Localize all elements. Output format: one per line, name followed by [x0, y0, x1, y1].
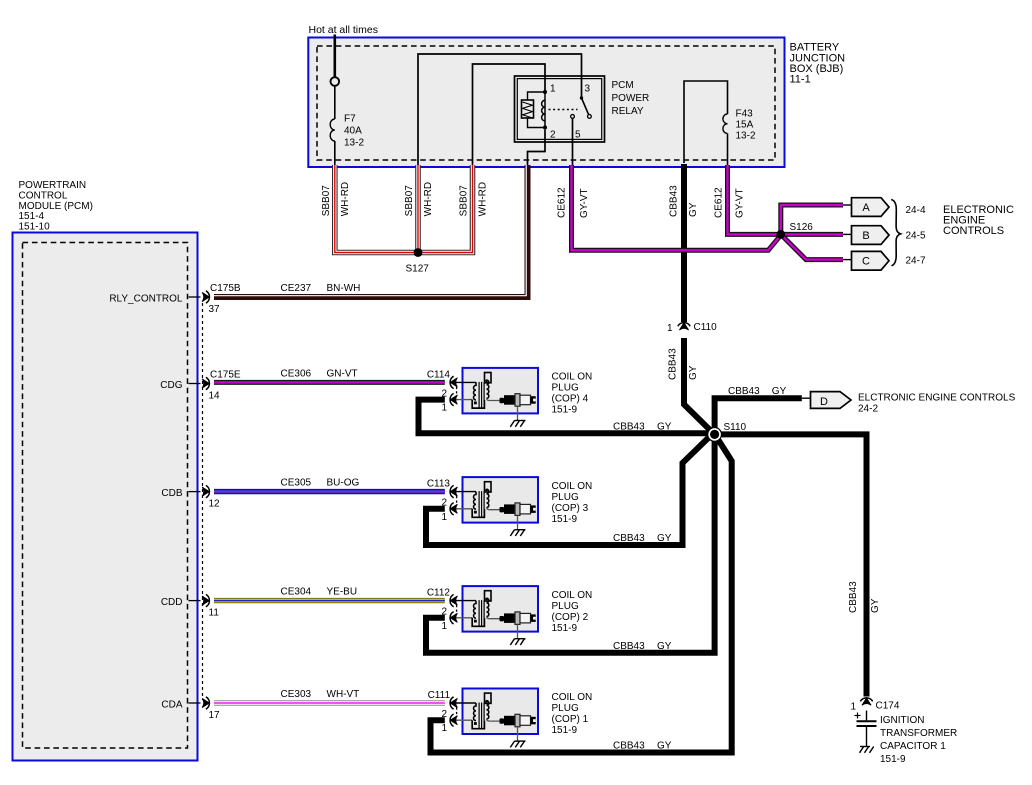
svg-text:BN-WH: BN-WH — [327, 283, 361, 294]
svg-text:WH-RD: WH-RD — [340, 182, 351, 216]
svg-text:WH-VT: WH-VT — [327, 689, 360, 700]
coil on plug (COP) 3 — [441, 477, 538, 536]
wire CBB43 GY ground branch row 3 — [426, 434, 715, 652]
svg-text:14: 14 — [209, 391, 221, 402]
svg-text:PLUG: PLUG — [552, 383, 579, 394]
svg-text:24-2: 24-2 — [858, 403, 878, 414]
wire SBB07 WH-RD #3 — [418, 165, 473, 253]
svg-text:SBB07: SBB07 — [321, 185, 332, 217]
svg-text:13-2: 13-2 — [344, 138, 364, 149]
svg-text:151-9: 151-9 — [552, 405, 578, 416]
powertrain control module (PCM) outline — [13, 233, 198, 761]
svg-text:CE237: CE237 — [281, 283, 312, 294]
svg-text:CE304: CE304 — [281, 587, 312, 598]
svg-text:SBB07: SBB07 — [459, 185, 470, 217]
svg-text:C112: C112 — [427, 588, 451, 599]
wire S126 to C — [781, 234, 843, 259]
svg-text:COIL ON: COIL ON — [552, 590, 593, 601]
svg-text:A: A — [862, 202, 870, 214]
svg-text:WH-RD: WH-RD — [478, 182, 489, 216]
wire CE237 BN-WH rly control — [214, 165, 528, 297]
svg-text:12: 12 — [209, 499, 221, 510]
svg-text:C175B: C175B — [210, 283, 241, 294]
fuse F43 — [723, 114, 728, 134]
svg-text:17: 17 — [209, 710, 221, 721]
svg-text:PLUG: PLUG — [552, 492, 579, 503]
svg-text:CE305: CE305 — [281, 478, 312, 489]
svg-text:1: 1 — [850, 702, 856, 713]
svg-text:CONTROLS: CONTROLS — [943, 225, 1004, 237]
svg-text:GY: GY — [657, 533, 672, 544]
svg-text:151-9: 151-9 — [552, 725, 578, 736]
svg-text:CBB43: CBB43 — [668, 348, 679, 380]
connector circle on hot feed — [331, 77, 340, 86]
PCM connector dashed line — [202, 303, 204, 700]
inline connector C110 — [679, 323, 688, 330]
svg-text:BU-OG: BU-OG — [327, 478, 360, 489]
svg-text:24-5: 24-5 — [906, 231, 926, 242]
svg-text:RELAY: RELAY — [612, 106, 644, 117]
connector A — [852, 198, 890, 217]
inline connector C174 — [862, 698, 871, 705]
svg-text:CBB43: CBB43 — [613, 641, 645, 652]
battery junction box (BJB) outline — [308, 38, 784, 168]
svg-text:CDA: CDA — [161, 699, 182, 710]
svg-text:S110: S110 — [724, 422, 747, 433]
svg-text:15A: 15A — [736, 120, 754, 131]
svg-text:(COP) 2: (COP) 2 — [552, 612, 589, 623]
wire CE305 BU-OG — [214, 489, 445, 494]
PCM pin CDA — [189, 702, 201, 704]
svg-text:GN-VT: GN-VT — [327, 368, 358, 379]
svg-text:40A: 40A — [344, 126, 362, 137]
svg-text:C111: C111 — [428, 690, 451, 701]
svg-text:(COP) 4: (COP) 4 — [552, 394, 589, 405]
PCM pin RLY_CONTROL — [189, 296, 201, 298]
svg-text:CBB43: CBB43 — [613, 533, 645, 544]
relay coil — [544, 92, 546, 128]
relay pin 3 and switch arm — [580, 96, 583, 99]
svg-text:1: 1 — [667, 323, 673, 334]
svg-text:3: 3 — [585, 84, 591, 95]
relay pin 2 — [543, 125, 547, 129]
wire: F7 to BJB bottom — [334, 141, 336, 166]
svg-text:GY: GY — [657, 741, 672, 752]
wire SBB07 WH-RD #1 — [335, 165, 418, 253]
svg-text:F43: F43 — [736, 109, 754, 120]
wire: relay pin 5 to BJB bottom — [572, 118, 574, 166]
svg-text:CBB43: CBB43 — [728, 386, 760, 397]
svg-text:CBB43: CBB43 — [669, 185, 680, 217]
svg-text:11: 11 — [209, 608, 220, 619]
PCM pin CDD — [189, 600, 201, 602]
svg-text:151-9: 151-9 — [880, 754, 906, 765]
svg-text:COIL ON: COIL ON — [552, 481, 593, 492]
svg-text:GY: GY — [688, 202, 699, 217]
connector C111 — [450, 698, 457, 707]
connector C — [852, 251, 890, 270]
svg-text:CAPACITOR 1: CAPACITOR 1 — [880, 741, 946, 752]
fuse F7 — [330, 119, 335, 141]
svg-text:GY: GY — [657, 422, 672, 433]
coil on plug (COP) 2 — [441, 586, 538, 645]
svg-text:37: 37 — [209, 304, 221, 315]
svg-text:24-7: 24-7 — [906, 256, 926, 267]
wire CE306 GN-VT — [214, 380, 445, 385]
svg-text:2: 2 — [550, 130, 556, 141]
svg-text:CBB43: CBB43 — [613, 741, 645, 752]
svg-text:TRANSFORMER: TRANSFORMER — [880, 728, 957, 739]
svg-text:1: 1 — [550, 84, 556, 95]
svg-text:PLUG: PLUG — [552, 601, 579, 612]
wire CBB43 GY ground branch row 1 — [419, 400, 715, 434]
svg-text:Hot at all times: Hot at all times — [309, 24, 378, 36]
PCM pin CDB — [189, 491, 201, 493]
svg-text:GY: GY — [688, 365, 699, 380]
wire CE304 YE-BU — [214, 598, 445, 603]
svg-text:GY: GY — [870, 598, 881, 613]
relay pin 1 — [543, 90, 547, 94]
svg-text:COIL ON: COIL ON — [552, 372, 593, 383]
svg-text:ELCTRONIC ENGINE CONTROLS: ELCTRONIC ENGINE CONTROLS — [858, 392, 1016, 403]
wire: relay pin 2 to BJB bottom — [528, 130, 546, 166]
svg-text:5: 5 — [575, 130, 581, 141]
svg-text:CBB43: CBB43 — [613, 422, 645, 433]
connector C114 — [450, 378, 457, 387]
svg-text:POWER: POWER — [612, 93, 650, 104]
wire CBB43 GY main from BJB — [681, 164, 687, 322]
svg-text:PCM: PCM — [612, 80, 634, 91]
wire CE303 WH-VT — [214, 700, 445, 705]
ignition transformer capacitor 1 — [866, 711, 868, 721]
svg-text:C174: C174 — [876, 701, 900, 712]
wire S126 to B — [781, 232, 843, 237]
wire CE612 GY-VT from F43 to S126 — [728, 165, 778, 234]
svg-text:COIL ON: COIL ON — [552, 692, 593, 703]
svg-text:CDB: CDB — [161, 488, 182, 499]
svg-text:SBB07: SBB07 — [404, 185, 415, 217]
wire: F43 to BJB bottom — [727, 134, 729, 167]
svg-text:PLUG: PLUG — [552, 703, 579, 714]
svg-text:11-1: 11-1 — [790, 74, 811, 86]
svg-text:WH-RD: WH-RD — [423, 182, 434, 216]
wire CBB43 GY ground branch row 2 — [426, 434, 713, 545]
splice S110 — [708, 428, 722, 442]
svg-text:F7: F7 — [344, 114, 356, 125]
relay coil resistor — [522, 100, 534, 118]
wire S126 to A — [781, 205, 843, 234]
svg-text:C175E: C175E — [210, 370, 241, 381]
svg-text:GY-VT: GY-VT — [734, 188, 745, 218]
svg-text:RLY_CONTROL: RLY_CONTROL — [109, 293, 183, 304]
svg-text:S126: S126 — [790, 222, 814, 233]
wire CE612 GY-VT from relay pin 5 — [572, 165, 781, 250]
svg-text:D: D — [820, 396, 828, 408]
svg-text:C: C — [862, 256, 870, 268]
connector C113 — [450, 487, 457, 496]
brace — [891, 200, 900, 266]
wire: relay pin 1 feed — [473, 64, 546, 166]
svg-text:C113: C113 — [427, 479, 451, 490]
connector C112 — [450, 596, 457, 605]
coil on plug (COP) 4 — [441, 368, 538, 427]
svg-text:CBB43: CBB43 — [848, 581, 859, 613]
svg-text:151-9: 151-9 — [552, 623, 578, 634]
relay U-box PCM POWER RELAY — [515, 76, 605, 142]
svg-text:POWERTRAIN: POWERTRAIN — [19, 180, 87, 191]
connector D — [811, 392, 852, 409]
wire: F43 branch inside BJB — [684, 81, 728, 163]
wire CBB43 GY ground branch row 4 — [431, 437, 732, 753]
svg-text:B: B — [862, 230, 869, 242]
svg-text:151-4: 151-4 — [19, 211, 45, 222]
wire: hot feed into BJB — [333, 35, 336, 78]
PCM pin CDG — [189, 383, 201, 385]
svg-text:GY: GY — [657, 641, 672, 652]
svg-text:(COP) 1: (COP) 1 — [552, 714, 589, 725]
wire CBB43 GY to connector D — [715, 398, 802, 434]
relay contact dashed link — [549, 109, 578, 111]
splice S126 — [776, 230, 785, 239]
svg-text:151-10: 151-10 — [19, 222, 51, 233]
wire: circle to fuse F7 — [334, 86, 336, 119]
svg-text:13-2: 13-2 — [736, 131, 756, 142]
svg-text:CE303: CE303 — [281, 689, 312, 700]
svg-text:24-4: 24-4 — [906, 205, 926, 216]
coil on plug (COP) 1 — [441, 689, 538, 748]
svg-text:GY-VT: GY-VT — [579, 188, 590, 218]
svg-text:CDG: CDG — [160, 380, 182, 391]
relay pin 5 — [571, 115, 575, 119]
wire SBB07 WH-RD #2 — [415, 165, 421, 253]
splice S127 — [414, 248, 423, 257]
svg-text:151-9: 151-9 — [552, 514, 578, 525]
svg-text:CE612: CE612 — [714, 187, 725, 218]
svg-text:CE612: CE612 — [557, 187, 568, 218]
svg-text:YE-BU: YE-BU — [327, 587, 358, 598]
wire: relay pin 3 feed — [418, 54, 582, 166]
connector B — [852, 226, 890, 245]
svg-text:(COP) 3: (COP) 3 — [552, 503, 589, 514]
svg-text:MODULE (PCM): MODULE (PCM) — [19, 201, 93, 212]
svg-text:GY: GY — [772, 386, 787, 397]
wire CBB43 GY right branch to C174 — [715, 434, 867, 696]
svg-text:IGNITION: IGNITION — [880, 715, 924, 726]
ground for capacitor — [860, 746, 870, 748]
svg-text:CONTROL: CONTROL — [19, 190, 68, 201]
svg-text:CDD: CDD — [161, 597, 183, 608]
svg-text:C114: C114 — [427, 369, 451, 380]
svg-text:CE306: CE306 — [281, 368, 312, 379]
svg-text:C110: C110 — [694, 322, 718, 333]
wire CBB43 GY below C110 to S110 — [684, 338, 711, 431]
svg-text:S127: S127 — [406, 264, 430, 275]
